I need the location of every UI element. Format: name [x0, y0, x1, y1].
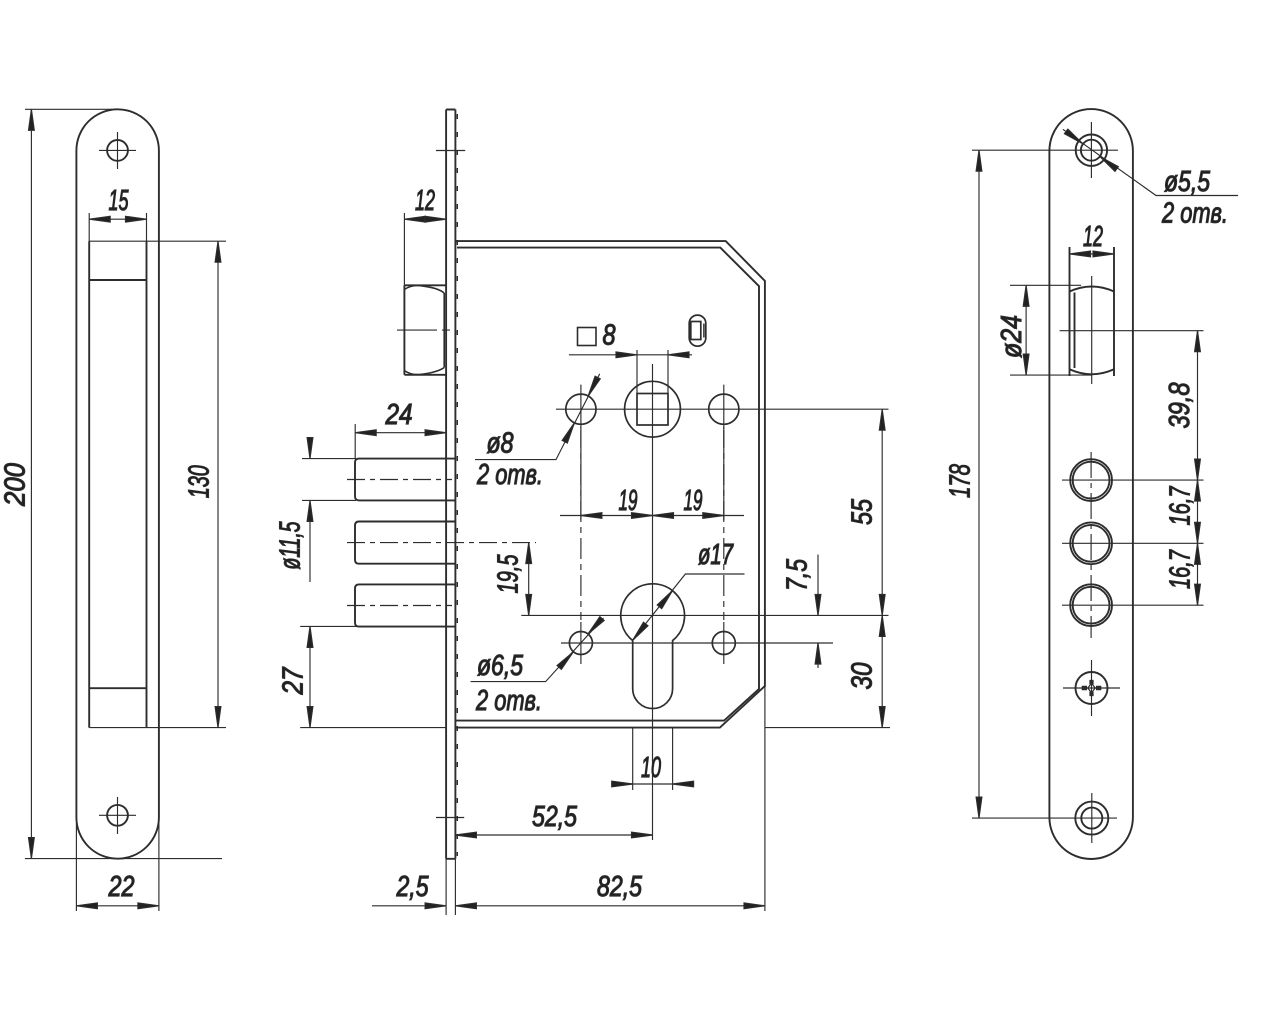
svg-text:12: 12 [415, 185, 435, 217]
svg-text:30: 30 [847, 662, 879, 689]
svg-text:ø24: ø24 [996, 315, 1028, 358]
svg-text:2,5: 2,5 [396, 871, 429, 903]
svg-text:24: 24 [385, 399, 413, 431]
svg-text:ø5,5: ø5,5 [1164, 166, 1210, 198]
svg-text:52,5: 52,5 [532, 801, 577, 833]
svg-text:19: 19 [684, 485, 703, 517]
svg-text:55: 55 [847, 499, 879, 525]
svg-text:178: 178 [945, 464, 977, 498]
svg-text:82,5: 82,5 [597, 871, 642, 903]
svg-text:10: 10 [641, 752, 661, 784]
svg-text:ø11,5: ø11,5 [275, 521, 307, 569]
svg-text:200: 200 [0, 463, 32, 507]
svg-text:ø8: ø8 [487, 428, 514, 460]
svg-text:16,7: 16,7 [1165, 486, 1197, 526]
svg-text:7,5: 7,5 [782, 559, 814, 591]
svg-text:12: 12 [1083, 221, 1103, 253]
svg-text:19,5: 19,5 [493, 554, 525, 593]
svg-text:8: 8 [603, 320, 616, 352]
svg-text:39,8: 39,8 [1164, 382, 1196, 428]
svg-text:27: 27 [278, 667, 310, 696]
svg-text:15: 15 [109, 185, 129, 217]
svg-text:22: 22 [108, 871, 135, 903]
svg-text:130: 130 [184, 465, 216, 498]
svg-text:ø6,5: ø6,5 [477, 650, 523, 682]
svg-text:2 отв.: 2 отв. [475, 685, 542, 717]
svg-text:16,7: 16,7 [1165, 549, 1197, 589]
svg-text:ø17: ø17 [698, 539, 734, 571]
svg-text:2 отв.: 2 отв. [476, 459, 543, 491]
svg-text:2 отв.: 2 отв. [1161, 198, 1228, 230]
svg-text:19: 19 [619, 485, 638, 517]
